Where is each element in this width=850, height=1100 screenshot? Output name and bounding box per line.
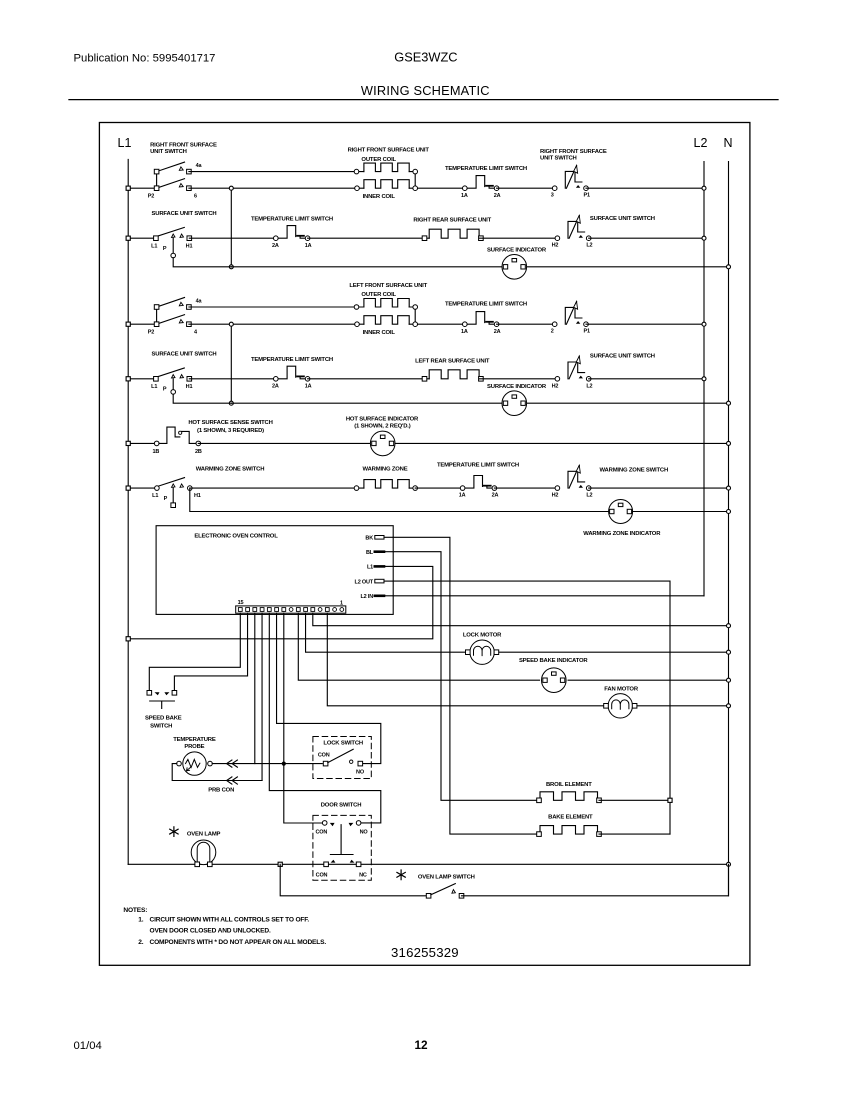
wire pin 15 to speed bake switch left (149, 613, 240, 690)
wire right rear surface unit coil to relay switch (479, 237, 557, 239)
switch right front surface unit switch (double pole, terminals P2/4a/6) (148, 162, 203, 199)
IC electronic oven control box (156, 526, 393, 615)
label right front surface unit switch (relay) (540, 149, 607, 161)
svg-text:LOCK SWITCH: LOCK SWITCH (323, 741, 363, 747)
thermal switch temperature limit switch of left front surface unit switch (terminals 1A/2A) (461, 312, 501, 335)
part number text (391, 945, 459, 960)
indicator lamp hot surface indicator (346, 417, 419, 456)
resistor right rear surface unit coil (422, 229, 483, 240)
wire temperature probe to lock switch CON (212, 763, 322, 765)
wire L1 input from L1 rail (126, 566, 433, 641)
svg-text:1: 1 (340, 600, 343, 606)
resistor inner coil of right front surface unit switch (355, 180, 465, 191)
wire to left front surface unit switch outer coil (189, 306, 364, 308)
labels row 4 (152, 352, 655, 365)
switch surface unit switch of right rear surface unit (terminals H2/L2) (552, 216, 593, 249)
wire BL output to broil element (393, 552, 539, 801)
resistor outer coil of right front surface unit switch (354, 163, 417, 188)
svg-text:H1: H1 (194, 493, 201, 499)
svg-text:L2: L2 (586, 243, 592, 249)
junction lamp line / oven lamp switch tap (278, 862, 282, 866)
svg-text:TEMPERATURE LIMIT SWITCH: TEMPERATURE LIMIT SWITCH (445, 301, 527, 307)
connector PRB CON chevrons (208, 760, 237, 793)
svg-text:1B: 1B (152, 449, 159, 455)
lamp oven lamp (170, 827, 221, 867)
svg-text:SURFACE UNIT SWITCH: SURFACE UNIT SWITCH (590, 216, 655, 222)
svg-text:H2: H2 (552, 383, 559, 389)
svg-text:H2: H2 (552, 493, 559, 499)
resistor warming zone element (354, 466, 417, 490)
svg-text:UNIT SWITCH: UNIT SWITCH (150, 149, 187, 155)
wire temperature limit switch to left rear surface unit coil (308, 378, 430, 380)
svg-text:L2: L2 (694, 136, 708, 150)
svg-text:L1: L1 (118, 136, 132, 150)
svg-text:1.: 1. (138, 917, 143, 924)
wire lamp line tap to oven lamp switch (280, 864, 428, 896)
svg-text:SPEED BAKE INDICATOR: SPEED BAKE INDICATOR (519, 658, 588, 664)
node N label (723, 136, 732, 150)
svg-text:TEMPERATURE: TEMPERATURE (173, 737, 216, 743)
svg-text:L1: L1 (152, 493, 158, 499)
wire pin 3 to fan motor (327, 613, 606, 706)
svg-text:CON: CON (315, 829, 327, 835)
svg-text:CON: CON (316, 872, 328, 878)
svg-text:ELECTRONIC OVEN CONTROL: ELECTRONIC OVEN CONTROL (194, 534, 278, 540)
wire relay of right rear surface unit to L2 rail (589, 236, 706, 240)
svg-text:(1 SHOWN, 2 REQ'D.): (1 SHOWN, 2 REQ'D.) (354, 424, 410, 430)
wire temperature limit switch to right rear surface unit coil (308, 237, 430, 239)
svg-text:L2 OUT: L2 OUT (355, 579, 374, 585)
thermal switch temperature limit switch of right rear surface unit (terminals 2A/1A) (189, 226, 311, 249)
svg-text:BROIL ELEMENT: BROIL ELEMENT (546, 782, 592, 788)
label right front surface unit switch (150, 143, 217, 155)
wire warming zone indicator to N rail (633, 510, 731, 514)
svg-text:1A: 1A (461, 193, 468, 199)
switch left front surface unit switch (double pole, terminals P2/4a/4) (148, 298, 203, 336)
svg-text:OVEN LAMP SWITCH: OVEN LAMP SWITCH (418, 874, 475, 880)
svg-text:L1: L1 (367, 565, 373, 571)
switch warming zone switch relay (terminals H2/L2) (552, 465, 669, 498)
wire temperature limit switch to right front surface unit switch (line side) (497, 187, 555, 189)
switch right front surface unit switch (line side) (terminals 3/P1) (551, 166, 590, 199)
svg-text:SURFACE UNIT SWITCH: SURFACE UNIT SWITCH (152, 352, 217, 358)
wire pin 11 to door switch NO (269, 613, 381, 823)
svg-text:L2 IN: L2 IN (360, 594, 373, 600)
svg-text:H2: H2 (552, 243, 559, 249)
svg-text:GSE3WZC: GSE3WZC (394, 50, 457, 65)
wire tie row3 inner-coil line to surface indicator line (229, 322, 233, 405)
wire pin 6 to lock motor (306, 613, 468, 652)
svg-text:P1: P1 (584, 193, 590, 199)
svg-text:NO: NO (356, 770, 365, 776)
wire right front surface unit switch (line side) to L2 rail (586, 186, 706, 190)
svg-text:4: 4 (194, 330, 198, 336)
svg-text:P2: P2 (148, 330, 154, 336)
svg-text:LOCK MOTOR: LOCK MOTOR (463, 633, 502, 639)
switch speed bake switch (145, 691, 182, 730)
svg-text:UNIT SWITCH: UNIT SWITCH (540, 155, 577, 161)
wire pin 5 to N rail (313, 613, 731, 628)
label right front surface unit coils (348, 148, 430, 200)
svg-text:NC: NC (359, 872, 367, 878)
svg-text:NO: NO (360, 829, 369, 835)
wire temperature limit switch to left front surface unit line switch (497, 323, 555, 325)
svg-text:1A: 1A (461, 329, 468, 335)
switch surface unit switch (left rear) (terminals L1/P/H1) (151, 368, 192, 394)
labels row 2 (152, 211, 655, 224)
svg-text:WARMING ZONE INDICATOR: WARMING ZONE INDICATOR (583, 531, 661, 537)
wire L1 feed to surface unit switch (right rear) (126, 236, 156, 240)
wire L1 supply rail (127, 159, 129, 864)
svg-text:INNER COIL: INNER COIL (363, 330, 396, 336)
wire lock motor to N rail (496, 650, 730, 654)
svg-text:P: P (163, 387, 167, 393)
svg-text:PRB CON: PRB CON (208, 787, 234, 793)
svg-text:2B: 2B (195, 449, 202, 455)
switch door switch (dashed box, terminals CON/NO/CON/NC) (313, 803, 371, 881)
resistor temperature probe (173, 737, 216, 775)
wire bake element to L2 OUT riser (599, 833, 670, 835)
svg-text:CIRCUIT SHOWN WITH ALL CONTROL: CIRCUIT SHOWN WITH ALL CONTROLS SET TO O… (150, 917, 310, 924)
wire pilot P of surface unit switch (right rear) to indicator line (173, 258, 231, 267)
wire warming zone relay to N rail (589, 486, 731, 490)
resistor broil element (537, 782, 602, 802)
switch lock switch (dashed box, terminals CON/NO) (313, 737, 371, 779)
schematic border frame (99, 123, 750, 966)
svg-text:P: P (163, 246, 167, 252)
svg-text:1A: 1A (305, 243, 312, 249)
svg-text:SURFACE INDICATOR: SURFACE INDICATOR (487, 248, 547, 254)
wire L2 supply rail (703, 162, 705, 596)
wire L1 feed to surface unit switch (left rear) (126, 377, 156, 381)
svg-text:BAKE ELEMENT: BAKE ELEMENT (548, 814, 593, 820)
resistor bake element (537, 814, 602, 836)
svg-text:SURFACE UNIT SWITCH: SURFACE UNIT SWITCH (152, 211, 217, 217)
indicator lamp surface indicator of right rear surface unit (487, 248, 547, 279)
wire broil element to L2 OUT riser (599, 798, 672, 802)
svg-text:6: 6 (194, 194, 197, 200)
resistor inner coil of left front surface unit switch (355, 316, 465, 327)
svg-text:SURFACE INDICATOR: SURFACE INDICATOR (487, 384, 547, 390)
wire to right front surface unit switch outer coil (189, 171, 364, 173)
svg-text:12: 12 (414, 1038, 428, 1052)
wire to left front surface unit switch inner coil (189, 323, 364, 325)
thermal switch temperature limit switch row 6 (terminals 1A/2A) (437, 462, 519, 498)
wire tie row1 inner-coil line to surface indicator line (229, 186, 233, 269)
svg-text:LEFT FRONT SURFACE UNIT: LEFT FRONT SURFACE UNIT (349, 283, 427, 289)
connector 15-pin strip of electronic oven control (236, 600, 346, 613)
wire L1 feed to right front surface unit switch (126, 186, 157, 190)
svg-text:CON: CON (318, 753, 330, 759)
svg-text:BL: BL (366, 550, 374, 556)
wire hot surface indicator to N rail (395, 441, 731, 445)
svg-text:2A: 2A (494, 329, 501, 335)
switch surface unit switch of left rear surface unit (terminals H2/L2) (552, 356, 593, 389)
switch surface unit switch (right rear) (terminals L1/P/H1) (151, 227, 192, 257)
svg-text:OVEN LAMP: OVEN LAMP (187, 831, 221, 837)
svg-text:TEMPERATURE LIMIT SWITCH: TEMPERATURE LIMIT SWITCH (445, 166, 527, 172)
wire oven lamp switch to N rail (462, 864, 729, 896)
svg-text:L2: L2 (586, 383, 592, 389)
page footer text (74, 1038, 428, 1052)
svg-text:INNER COIL: INNER COIL (363, 194, 396, 200)
svg-text:L1: L1 (151, 243, 157, 249)
svg-text:(1 SHOWN, 3 REQUIRED): (1 SHOWN, 3 REQUIRED) (197, 428, 264, 434)
wire N neutral rail (728, 162, 730, 896)
wire fan motor to N rail (635, 704, 731, 708)
wire left front surface unit line switch to L2 rail (586, 322, 706, 326)
svg-text:316255329: 316255329 (391, 945, 459, 960)
wire warming zone element to temperature limit switch (415, 487, 462, 489)
svg-text:COMPONENTS WITH * DO NOT APP: COMPONENTS WITH * DO NOT APPEAR ON ALL M… (150, 939, 327, 946)
svg-text:LEFT REAR SURFACE UNIT: LEFT REAR SURFACE UNIT (415, 358, 490, 364)
wire BK output to bake element (393, 537, 539, 834)
label left front surface unit coils (349, 283, 427, 336)
switch hot surface sense switch (terminals 1B/2B) (152, 420, 272, 455)
wire temperature probe return (172, 764, 262, 781)
svg-text:FAN MOTOR: FAN MOTOR (604, 686, 639, 692)
label temperature limit switch row 1 (445, 166, 527, 172)
wire relay of left rear surface unit to L2 rail (589, 377, 706, 381)
wire surface indicator line of left rear surface unit (231, 401, 730, 405)
wire warming zone switch H1 to warming zone indicator (190, 488, 609, 511)
wire L2 OUT to elements return (393, 581, 670, 834)
svg-text:RIGHT FRONT SURFACE: RIGHT FRONT SURFACE (150, 143, 217, 149)
wire pin 13 to temperature probe line (254, 613, 256, 763)
wire pin 9 to door switch CON (284, 613, 323, 823)
wire temperature limit switch to warming zone relay (494, 487, 557, 489)
svg-text:H1: H1 (186, 384, 193, 390)
motor fan motor (604, 686, 639, 718)
wire pin 12 to temperature probe return line (212, 613, 262, 780)
thermal switch temperature limit switch of left rear surface unit (terminals 2A/1A) (189, 366, 311, 389)
svg-text:2A: 2A (272, 243, 279, 249)
wire left rear surface unit coil to relay switch (479, 378, 557, 380)
wire pin 7 to speed bake indicator (298, 613, 539, 680)
svg-text:TEMPERATURE LIMIT SWITCH: TEMPERATURE LIMIT SWITCH (251, 216, 333, 222)
svg-text:15: 15 (238, 600, 244, 606)
wire oven lamp line L1 to N (128, 862, 730, 866)
wire L1 feed to warming zone switch (126, 486, 157, 490)
indicator lamp warming zone indicator (583, 500, 661, 538)
svg-text:N: N (723, 136, 732, 150)
svg-text:WARMING ZONE: WARMING ZONE (363, 466, 408, 472)
svg-text:TEMPERATURE LIMIT SWITCH: TEMPERATURE LIMIT SWITCH (437, 462, 519, 468)
svg-text:TEMPERATURE LIMIT SWITCH: TEMPERATURE LIMIT SWITCH (251, 357, 333, 363)
notes text (123, 907, 326, 946)
svg-text:SWITCH: SWITCH (150, 724, 172, 730)
wire pin 10 to lock switch NO (277, 613, 381, 763)
indicator lamp surface indicator of left rear surface unit (487, 384, 547, 416)
svg-text:OUTER COIL: OUTER COIL (361, 157, 396, 163)
svg-text:SPEED BAKE: SPEED BAKE (145, 715, 182, 721)
svg-text:4a: 4a (196, 299, 203, 305)
svg-text:SURFACE UNIT SWITCH: SURFACE UNIT SWITCH (590, 354, 655, 360)
page header text (74, 50, 490, 98)
svg-text:01/04: 01/04 (74, 1040, 102, 1052)
svg-text:Publication No: 5995401717: Publication No: 5995401717 (74, 53, 216, 65)
svg-text:OUTER COIL: OUTER COIL (361, 292, 396, 298)
svg-text:WARMING ZONE SWITCH: WARMING ZONE SWITCH (600, 467, 669, 473)
wire L1 feed to left front surface unit switch (126, 322, 157, 326)
wire L1 feed to hot surface sense switch (126, 441, 157, 445)
resistor outer coil of left front surface unit switch (354, 299, 417, 325)
svg-text:L1: L1 (151, 384, 157, 390)
indicator lamp speed bake indicator (519, 658, 588, 692)
wire speed bake indicator to N rail (568, 678, 730, 682)
wire pin 14 to speed bake switch right (174, 613, 247, 690)
thermal switch temperature limit switch of right front surface unit switch (terminals 1A/2A) (461, 176, 501, 199)
svg-text:4a: 4a (196, 163, 203, 169)
svg-text:1A: 1A (459, 493, 466, 499)
svg-text:2A: 2A (272, 383, 279, 389)
svg-text:1A: 1A (305, 383, 312, 389)
svg-text:DOOR SWITCH: DOOR SWITCH (321, 803, 362, 809)
svg-text:RIGHT REAR SURFACE UNIT: RIGHT REAR SURFACE UNIT (413, 218, 491, 224)
svg-text:2: 2 (551, 329, 554, 335)
label temperature limit switch row 3 (445, 301, 527, 307)
svg-text:BK: BK (365, 536, 373, 542)
svg-text:OVEN DOOR CLOSED AND UNLOCKED.: OVEN DOOR CLOSED AND UNLOCKED. (150, 928, 271, 935)
svg-text:WARMING ZONE SWITCH: WARMING ZONE SWITCH (196, 466, 265, 472)
svg-text:L2: L2 (586, 493, 592, 499)
svg-text:WIRING SCHEMATIC: WIRING SCHEMATIC (361, 83, 490, 98)
wire warming zone switch to warming zone element (190, 487, 364, 489)
svg-text:P1: P1 (584, 329, 590, 335)
switch left front surface unit line switch (terminals 2/P1) (551, 302, 590, 335)
svg-text:3: 3 (551, 193, 554, 199)
header rule (69, 99, 778, 101)
svg-text:2A: 2A (494, 193, 501, 199)
switch door switch lower contacts on lamp line (324, 860, 361, 867)
svg-text:P2: P2 (148, 194, 154, 200)
motor lock motor (463, 633, 502, 665)
resistor left rear surface unit coil (422, 370, 483, 381)
wire surface indicator line of right rear surface unit (231, 265, 730, 269)
wire to right front surface unit switch inner coil (189, 187, 364, 189)
wire hot surface sense switch to indicator (198, 442, 370, 444)
svg-text:RIGHT FRONT SURFACE UNIT: RIGHT FRONT SURFACE UNIT (348, 148, 430, 154)
svg-text:H1: H1 (186, 243, 193, 249)
wire L2 IN from L2 rail (393, 595, 704, 597)
node L2 label (694, 136, 708, 150)
svg-text:PROBE: PROBE (184, 744, 204, 750)
node L1 label (118, 136, 132, 150)
wire pilot P of surface unit switch (left rear) to indicator line (173, 394, 231, 403)
svg-text:RIGHT FRONT SURFACE: RIGHT FRONT SURFACE (540, 149, 607, 155)
svg-text:NOTES:: NOTES: (123, 907, 147, 914)
svg-text:2.: 2. (138, 939, 143, 946)
svg-text:HOT SURFACE INDICATOR: HOT SURFACE INDICATOR (346, 417, 419, 423)
svg-text:P: P (164, 496, 168, 502)
switch warming zone switch (terminals L1/P/H1) (152, 466, 264, 507)
switch oven lamp switch (397, 870, 475, 898)
junction probe line / pin 9 riser (282, 762, 286, 766)
svg-text:HOT SURFACE SENSE SWITCH: HOT SURFACE SENSE SWITCH (188, 420, 272, 426)
svg-text:2A: 2A (492, 493, 499, 499)
